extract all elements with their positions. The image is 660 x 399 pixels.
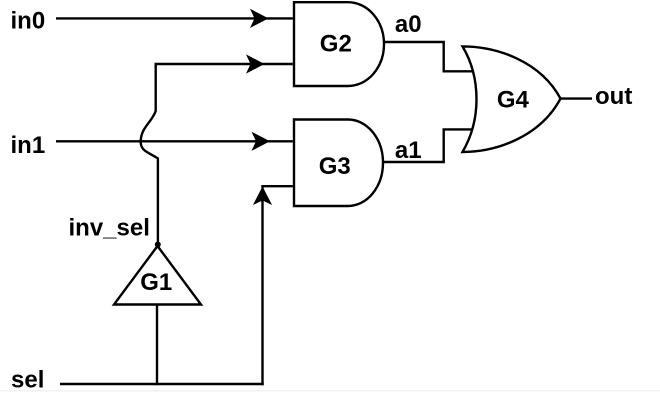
svg-text:G2: G2 xyxy=(320,31,352,58)
svg-text:inv_sel: inv_sel xyxy=(69,214,150,241)
svg-text:sel: sel xyxy=(11,367,44,394)
svg-text:in0: in0 xyxy=(11,8,46,35)
svg-text:a1: a1 xyxy=(395,137,422,164)
svg-text:G3: G3 xyxy=(319,153,351,180)
svg-text:G4: G4 xyxy=(497,87,530,114)
svg-text:in1: in1 xyxy=(11,132,46,159)
svg-text:G1: G1 xyxy=(140,269,172,296)
svg-text:out: out xyxy=(595,83,632,110)
svg-text:a0: a0 xyxy=(395,11,422,38)
